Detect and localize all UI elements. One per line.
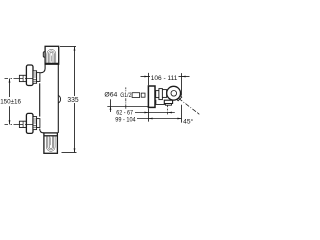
supply pipe xyxy=(132,93,140,98)
connector C xyxy=(162,90,166,98)
thick opening line near top of bottom block xyxy=(44,135,58,137)
dimension 150±16 line xyxy=(9,79,11,125)
outlet bump on body right edge xyxy=(58,95,60,103)
extension line left (wall plane, above) xyxy=(148,73,150,85)
valve head outer circle xyxy=(167,86,181,100)
arrow up 150±16 xyxy=(9,79,11,83)
dimension 99-104 line xyxy=(137,118,182,120)
flange bottom tangent line xyxy=(107,106,148,108)
dimension 335: bottom extension line xyxy=(62,152,77,154)
body left edge upper step xyxy=(40,64,45,73)
centerline below G1/2 xyxy=(125,87,127,108)
outlet centerline dashed xyxy=(167,105,169,114)
body left edge lower step xyxy=(40,129,44,133)
svg-text:99 - 104: 99 - 104 xyxy=(115,116,136,124)
dimension 62-67 line xyxy=(135,112,175,114)
nested arch (inner) in top block xyxy=(50,52,53,63)
bottom knob stem xyxy=(19,121,26,127)
svg-text:150±16: 150±16 xyxy=(0,98,21,105)
outlet block below valve xyxy=(164,100,172,103)
bottom boss spline hatch xyxy=(33,119,36,127)
dimension 335: top extension line xyxy=(60,46,76,48)
top knob xyxy=(26,65,33,86)
dimension 106-111: line left part with arrow xyxy=(141,76,151,78)
top hose-outlet block xyxy=(45,46,59,64)
bottom knob centerline xyxy=(5,124,33,126)
center stub line in bottom block xyxy=(50,137,52,145)
dimension 106-111: line right part with arrow xyxy=(179,76,190,78)
bottom hose block xyxy=(44,133,58,153)
extension line right (above) xyxy=(181,73,183,96)
nested U (middle) in bottom block xyxy=(48,136,54,150)
top knob centerline xyxy=(5,78,33,80)
svg-text:45°: 45° xyxy=(183,118,193,126)
svg-text:335: 335 xyxy=(67,97,78,104)
nested arch (middle) in top block xyxy=(49,51,55,63)
connector B xyxy=(159,89,163,100)
center stub line in top block xyxy=(50,56,52,62)
outlet block lower step xyxy=(165,104,171,106)
body left edge between knobs xyxy=(39,83,41,116)
svg-text:G1/2: G1/2 xyxy=(120,92,131,99)
thick opening line at bottom of top block xyxy=(45,62,59,64)
top knob stem xyxy=(19,75,26,81)
arrow down 335 xyxy=(74,148,76,152)
connector A xyxy=(156,91,159,98)
nested U (outer) in bottom block xyxy=(46,136,55,151)
arrow up 335 xyxy=(74,47,76,51)
45 degree dash-dot line xyxy=(179,98,200,114)
wall plane extension line (below flange) xyxy=(148,108,150,121)
lower housing ledge between flange and outlet xyxy=(156,100,165,105)
svg-text:106 - 111: 106 - 111 xyxy=(151,75,178,82)
body right edge xyxy=(57,64,59,133)
top knob splined boss xyxy=(33,71,37,84)
nested arch (outer) in top block xyxy=(47,49,56,63)
bottom knob xyxy=(26,113,33,133)
valve head inner circle xyxy=(171,91,177,97)
small left lug on top block xyxy=(43,52,45,57)
right extension line (below) xyxy=(181,105,183,123)
dimension 335 line xyxy=(74,47,76,153)
Ø64 leader line xyxy=(110,99,112,112)
svg-text:Ø64: Ø64 xyxy=(104,92,117,99)
union nut xyxy=(141,93,145,97)
nested U (inner) in bottom block xyxy=(49,136,52,149)
wall flange (escutcheon) xyxy=(148,86,155,107)
45 degree outlet stub on valve head xyxy=(177,96,182,101)
top boss spline hatch xyxy=(33,73,36,81)
arrow down 150±16 xyxy=(9,120,11,124)
bottom knob splined boss xyxy=(33,117,37,130)
